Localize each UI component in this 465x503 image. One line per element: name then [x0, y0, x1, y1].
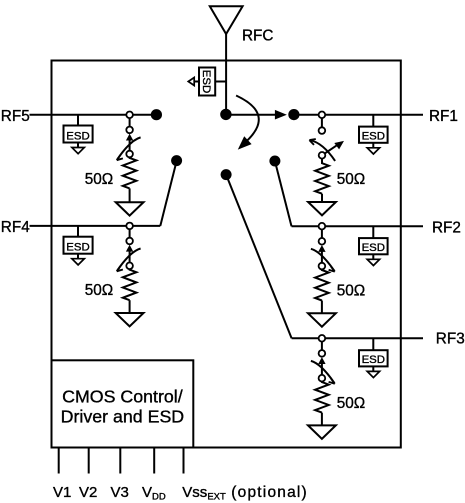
switch SW1 blade (open, swung right)	[325, 145, 337, 153]
curved arrow swing direction	[117, 249, 140, 271]
ESD cell at RF2	[359, 238, 388, 254]
switch SW4 blade (closed)	[129, 251, 131, 262]
node shunt contact on RF4 line	[126, 223, 133, 230]
arrowhead blade up (filled)	[318, 245, 325, 252]
arrowhead rotary motion (filled)	[238, 136, 252, 149]
wire RF3 throw arm diagonal	[226, 175, 292, 339]
node shunt contact upper	[126, 127, 133, 134]
node shunt contact on RF3 line	[319, 335, 326, 342]
svg-text:RFC: RFC	[242, 27, 273, 44]
svg-text:V1: V1	[53, 484, 71, 501]
wire RF3 to ESD stub	[372, 338, 374, 350]
svg-text:ESD: ESD	[66, 242, 89, 254]
curved arrow swing direction	[117, 137, 140, 159]
node shunt pivot	[319, 375, 326, 382]
shunt branch RF5 (closed)	[85, 112, 144, 216]
node RF3 throw contact	[221, 169, 232, 180]
node RF4 throw contact	[171, 155, 182, 166]
main chip boundary box	[52, 61, 401, 448]
curved arrow swing direction	[311, 249, 334, 271]
node RF5 throw contact	[151, 109, 162, 120]
node shunt contact upper	[319, 238, 326, 245]
node shunt contact on RF1 line	[319, 112, 326, 119]
wire to ground	[129, 188, 131, 202]
resistor R2	[315, 269, 329, 300]
curved arrow swing direction	[311, 361, 334, 383]
wire to ground	[321, 413, 323, 426]
node shunt contact on RF2 line	[319, 223, 326, 230]
svg-text:V3: V3	[111, 484, 129, 501]
wire RF5 line	[30, 114, 157, 116]
switch SW5 blade (closed)	[129, 140, 131, 151]
arrowhead swing (barbed)	[329, 266, 335, 271]
wire to ground	[129, 300, 131, 313]
ground small at RF4 ESD	[72, 254, 84, 265]
wire	[129, 118, 131, 127]
svg-text:ESD: ESD	[200, 70, 212, 93]
pin VDD	[153, 448, 155, 474]
svg-text:RF5: RF5	[1, 108, 30, 125]
arrowhead swing (barbed)	[117, 155, 123, 160]
ground GND1	[308, 202, 336, 215]
node shunt contact upper	[126, 238, 133, 245]
ground small at RF2 ESD	[367, 254, 379, 265]
wire	[321, 230, 323, 239]
node shunt contact upper	[319, 127, 326, 134]
svg-text:ESD: ESD	[362, 242, 385, 254]
node RFC pole	[220, 109, 231, 120]
resistor R1	[315, 159, 329, 194]
arrowhead pole to RF1 (filled)	[275, 110, 287, 120]
resistor R5	[123, 157, 137, 188]
ground GND4	[116, 313, 144, 326]
arrowhead swing (barbed)	[329, 379, 335, 384]
wire	[129, 229, 131, 238]
wire RF2 line	[292, 225, 424, 227]
ground GND2	[308, 313, 336, 326]
wire	[321, 342, 323, 351]
wire ESD0 left stub	[194, 81, 199, 83]
wire to ground	[321, 194, 323, 202]
wire RFC pole to RF1 (selected path)	[226, 114, 276, 116]
svg-text:CMOS Control/: CMOS Control/	[62, 386, 183, 406]
ground small at RF5 ESD	[72, 143, 84, 154]
shunt branch RF3 (closed)	[308, 335, 365, 439]
svg-text:RF4: RF4	[1, 219, 30, 236]
curved arrow swing direction	[310, 140, 335, 161]
ESD cell at RF5	[64, 126, 93, 143]
wire RF4 line	[30, 225, 161, 227]
svg-text:Driver and ESD: Driver and ESD	[61, 407, 185, 427]
node RF1 throw contact	[288, 109, 299, 120]
shunt branch RF4 (closed)	[85, 223, 144, 327]
switch SW2 blade (closed)	[321, 252, 323, 263]
switch SW3 blade (closed)	[321, 364, 323, 375]
wire ESD0 to RFC line	[215, 81, 226, 83]
svg-text:ESD: ESD	[362, 131, 385, 143]
wire RF1 to ESD stub	[372, 115, 374, 127]
wire to ground	[321, 301, 323, 314]
wire RF1 line	[294, 114, 423, 116]
arrowhead blade up (filled)	[126, 245, 133, 252]
ESD cell at RF3	[359, 350, 388, 366]
pin V1	[58, 448, 60, 474]
wire RF4 to ESD stub	[77, 226, 79, 237]
svg-text:RF1: RF1	[429, 108, 458, 125]
ESD cell at RF1	[359, 127, 388, 143]
shunt branch RF1 (open)	[308, 112, 365, 216]
wire RF5 to ESD stub	[77, 115, 79, 126]
wire antenna to RFC pole	[225, 34, 227, 114]
node shunt pivot	[126, 151, 133, 158]
block CMOS Control / Driver and ESD	[52, 360, 194, 447]
ground GND3	[308, 425, 336, 438]
svg-text:50Ω: 50Ω	[85, 282, 113, 299]
pin V3	[119, 448, 121, 474]
ground small at RF1 ESD	[367, 143, 379, 154]
svg-text:50Ω: 50Ω	[85, 171, 113, 188]
pin V2	[88, 448, 90, 474]
node shunt contact on RF5 line	[126, 112, 133, 119]
svg-text:50Ω: 50Ω	[337, 171, 365, 188]
wire RF4 throw arm diagonal	[160, 161, 176, 226]
node shunt pivot	[126, 263, 133, 270]
wire RF2 to ESD stub	[372, 226, 374, 238]
node shunt contact upper	[319, 350, 326, 357]
shunt branch RF2 (closed)	[308, 223, 365, 327]
arrowhead blade up (filled)	[126, 134, 133, 141]
pin VSSEXT	[183, 448, 185, 474]
svg-text:VssEXT (optional): VssEXT (optional)	[182, 484, 308, 503]
antenna ANT at RFC	[210, 6, 243, 34]
arrowhead swing (barbed)	[309, 139, 315, 145]
svg-text:ESD: ESD	[362, 354, 385, 366]
resistor R4	[123, 269, 137, 300]
resistor R3	[315, 382, 329, 413]
svg-text:ESD: ESD	[66, 130, 89, 142]
ESD cell U-ESD0 (RFC, rotated)	[199, 68, 215, 96]
arrowhead ESD0 discharge (open, left)	[188, 78, 194, 86]
ground small at RF3 ESD	[367, 366, 379, 377]
wire	[321, 118, 323, 127]
arrowhead blade (filled)	[334, 141, 344, 150]
ground GND5	[116, 202, 144, 215]
wire RF3 line	[292, 337, 423, 339]
svg-text:RF3: RF3	[436, 331, 465, 348]
node shunt pivot	[319, 263, 326, 270]
svg-text:V2: V2	[79, 484, 97, 501]
svg-text:50Ω: 50Ω	[337, 283, 365, 300]
arrowhead swing (barbed)	[117, 266, 123, 271]
node RF2 throw contact	[269, 156, 280, 167]
svg-text:50Ω: 50Ω	[337, 395, 365, 412]
arrowhead blade up (filled)	[318, 357, 325, 364]
ESD cell at RF4	[64, 237, 93, 254]
svg-text:RF2: RF2	[432, 219, 461, 236]
node shunt pivot	[319, 152, 326, 159]
wire RF2 throw arm diagonal	[275, 161, 292, 226]
curved arrow rotary motion at pole	[236, 96, 259, 143]
